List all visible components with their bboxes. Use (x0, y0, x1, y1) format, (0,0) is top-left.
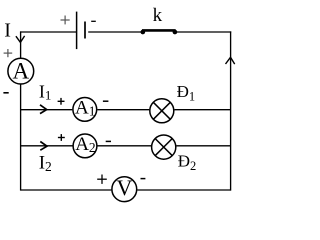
lamp D2 cross (155, 139, 172, 156)
branch 1 + label (left of A1) (58, 98, 65, 105)
switch k left terminal dot (140, 30, 145, 35)
lamp D2 circle (152, 135, 176, 159)
voltmeter - label (141, 178, 146, 180)
svg-text:I2: I2 (39, 153, 52, 175)
wire branch 2 right: lamp D2 to right bus (176, 145, 230, 147)
wire bottom right: voltmeter V to bottom-right corner (137, 189, 230, 191)
switch k blade (closed) (142, 29, 176, 32)
ammeter A1 circle (73, 98, 97, 122)
wire battery to switch left terminal (88, 31, 141, 33)
wire switch right terminal to top-right corner (177, 31, 232, 33)
lamp D1 circle (150, 99, 174, 123)
svg-text:V: V (117, 175, 133, 200)
voltmeter + label (97, 175, 107, 184)
branch 2 - label (right of A2) (106, 140, 111, 142)
wire top-left horizontal: corner to battery + plate (20, 31, 76, 33)
ammeter A + label (4, 49, 13, 57)
current arrow down on left bus (16, 36, 25, 43)
svg-text:Đ2: Đ2 (178, 152, 197, 173)
battery short plate (-) (84, 22, 86, 39)
voltmeter V circle (112, 177, 137, 202)
switch k right terminal dot (173, 30, 178, 35)
branch 2 + label (left of A2) (58, 134, 65, 141)
wire left bus upper: corner to ammeter A (20, 31, 22, 58)
ammeter A - label (3, 92, 8, 94)
ammeter A circle (8, 58, 34, 84)
wire left bus lower: ammeter A to bottom-left corner (20, 84, 22, 190)
wire right bus vertical (230, 31, 232, 190)
battery + label (61, 16, 70, 25)
lamp D1 cross (153, 102, 170, 119)
wire branch 2 left: bus to A2 (21, 145, 73, 147)
ammeter A2 circle (73, 134, 97, 158)
current arrow right on branch 1 (40, 105, 47, 114)
wire branch 1 left: bus to A1 (21, 109, 73, 111)
battery - label (91, 20, 96, 22)
wire branch 1 right: lamp D1 to right bus (174, 109, 230, 111)
battery long plate (+) (76, 12, 78, 50)
wire branch 1 middle: A1 to lamp D1 (97, 109, 149, 111)
current arrow up on right bus (226, 57, 235, 64)
svg-text:A: A (12, 59, 29, 84)
svg-text:Đ1: Đ1 (177, 82, 196, 103)
wire bottom left: corner to voltmeter V (21, 189, 112, 191)
current arrow right on branch 2 (40, 142, 47, 151)
svg-text:I: I (4, 20, 11, 42)
svg-text:k: k (153, 5, 163, 26)
branch 1 - label (right of A1) (103, 100, 109, 102)
svg-text:I1: I1 (39, 81, 52, 102)
wire branch 2 middle: A2 to lamp D2 (98, 145, 152, 147)
